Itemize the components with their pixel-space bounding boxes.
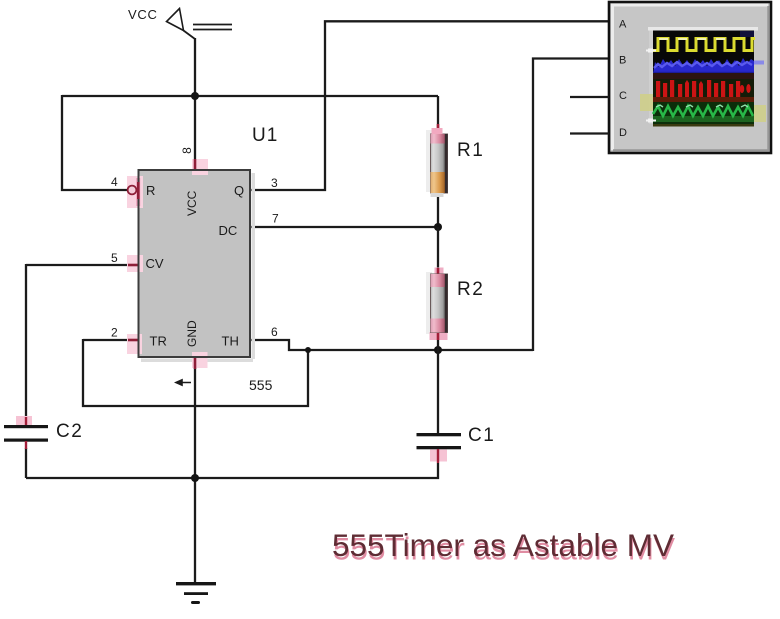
wire: pin 7 to divider	[250, 226, 438, 228]
wire: C2 bottom leg	[25, 448, 27, 478]
svg-text:A: A	[619, 19, 627, 31]
U1 body border	[139, 170, 251, 357]
node: TR/TH junction	[305, 347, 311, 353]
svg-text:C2: C2	[56, 421, 83, 442]
wire: scope D stub	[570, 132, 609, 134]
svg-text:555: 555	[249, 377, 273, 393]
svg-text:VCC: VCC	[128, 7, 158, 22]
svg-text:R: R	[146, 183, 155, 198]
svg-text:4: 4	[111, 175, 118, 189]
pin 6 number	[271, 325, 278, 339]
pin 5 stub	[111, 251, 143, 272]
capacitor C1	[417, 425, 496, 463]
svg-text:DC: DC	[219, 223, 238, 238]
svg-text:D: D	[619, 127, 627, 139]
wire: left drop to pin 4	[62, 95, 128, 190]
wire: pin 5 CV to C2	[26, 264, 128, 427]
pin 4 red edge highlight	[137, 182, 140, 199]
wire: R2 top leg	[437, 227, 439, 268]
power terminal VCC	[128, 7, 232, 39]
node: ground rail junction	[191, 474, 199, 482]
svg-text:2: 2	[111, 326, 118, 340]
pin 1 stub	[192, 352, 208, 369]
wire: pin 3 to scope A	[250, 21, 609, 190]
wire: pin1 GND drop	[194, 368, 196, 583]
svg-text:R1: R1	[457, 140, 484, 161]
wire: R1 bottom to junction	[437, 194, 439, 227]
wire: VCC drop from terminal	[194, 38, 196, 160]
wire: C1 top leg	[437, 350, 439, 434]
svg-text:CV: CV	[146, 256, 164, 271]
svg-text:555Timer as Astable MV: 555Timer as Astable MV	[332, 527, 674, 563]
wire: R2 bottom leg	[437, 338, 439, 350]
wire: C1 bottom leg to ground rail	[26, 463, 438, 478]
wire: VCC rail top horizontal	[62, 95, 438, 97]
svg-text:3: 3	[271, 176, 278, 190]
pin 3 number	[271, 176, 278, 190]
trace D green	[653, 102, 754, 124]
node: R2/C1/B junction	[434, 346, 442, 354]
wire: scope C stub	[570, 96, 609, 98]
pin 7 number	[272, 212, 279, 226]
svg-text:Q: Q	[234, 183, 244, 198]
svg-text:TR: TR	[150, 334, 167, 349]
node: pin7/divider junction	[434, 223, 442, 231]
arrow marker near pin 1	[176, 380, 191, 385]
pin 2 stub	[111, 326, 142, 355]
trace C red pulses	[653, 79, 754, 97]
svg-text:VCC: VCC	[185, 190, 199, 216]
ground	[176, 582, 216, 604]
pin 8 stub	[180, 147, 208, 175]
svg-text:U1: U1	[252, 125, 278, 146]
dark band below blue	[653, 73, 754, 79]
capacitor C2	[4, 416, 83, 449]
svg-text:8: 8	[180, 147, 194, 154]
resistor R1	[426, 124, 484, 197]
svg-text:5: 5	[111, 251, 118, 265]
svg-text:C: C	[619, 90, 627, 102]
svg-text:7: 7	[272, 212, 279, 226]
svg-text:GND: GND	[185, 320, 199, 347]
IC pin name labels	[146, 183, 245, 349]
svg-text:TH: TH	[222, 334, 239, 349]
svg-text:R2: R2	[457, 279, 484, 300]
svg-text:C1: C1	[468, 425, 495, 446]
wire: pin 2 TR loop	[83, 339, 308, 406]
trace B blue noise	[653, 58, 754, 74]
wire: R1 top leg	[437, 96, 439, 128]
node: VCC rail junction	[191, 92, 199, 100]
resistor R2	[426, 268, 484, 341]
svg-text:B: B	[619, 55, 626, 67]
trace A yellow square wave	[653, 39, 755, 51]
pin 4 stub with inversion bubble	[111, 175, 143, 208]
title text	[332, 527, 675, 567]
svg-text:6: 6	[271, 325, 278, 339]
oscilloscope	[609, 2, 771, 153]
op-amp U1 body: 555 timer IC	[139, 125, 279, 393]
oscilloscope screen	[640, 27, 766, 127]
olive glow smears	[640, 94, 653, 111]
wire: pin 6 TH net to scope B	[250, 59, 609, 352]
